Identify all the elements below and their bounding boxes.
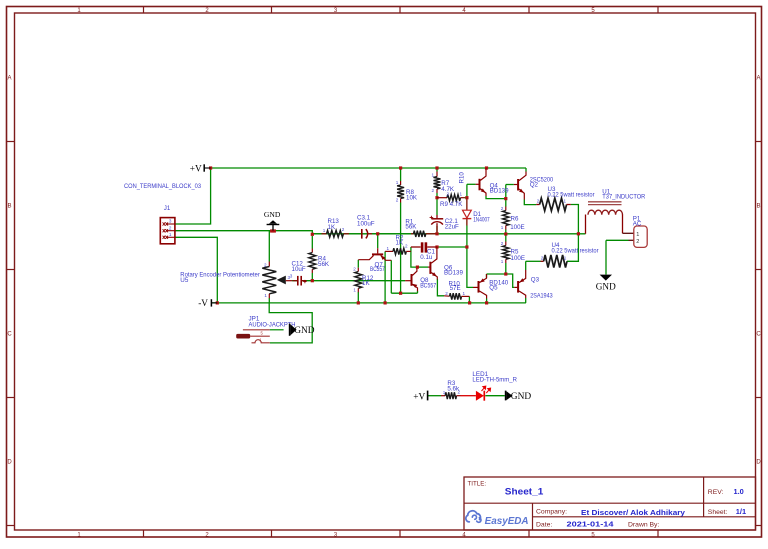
svg-text:B: B (756, 204, 760, 210)
wire Q7 collector to R12 (357, 260, 359, 268)
svg-text:GND: GND (596, 281, 616, 291)
svg-text:2: 2 (541, 256, 544, 261)
wire rail to Q7 base (377, 234, 379, 248)
svg-text:22uF: 22uF (445, 223, 459, 230)
wire D1 to Q5 base (467, 220, 473, 288)
svg-text:C: C (756, 332, 761, 338)
svg-text:CON_TERMINAL_BLOCK_03: CON_TERMINAL_BLOCK_03 (124, 183, 202, 190)
resistor R2 (385, 248, 411, 254)
resistor R3 (441, 392, 461, 399)
svg-text:100E: 100E (510, 224, 524, 231)
wire R7 to R9 node (436, 193, 438, 198)
resistor R13 (322, 230, 350, 237)
svg-text:1: 1 (323, 228, 326, 233)
svg-text:2: 2 (342, 227, 345, 232)
connector J1 (160, 218, 175, 244)
svg-text:GND: GND (294, 326, 315, 336)
resistor R5 (503, 242, 509, 264)
wire emitter bus (391, 292, 417, 294)
svg-text:1: 1 (564, 256, 567, 261)
diode D1 (463, 198, 472, 226)
junction (270, 229, 273, 232)
svg-text:BC557: BC557 (370, 266, 385, 273)
svg-text:1K: 1K (396, 240, 404, 247)
wire Q8 emitter down (417, 291, 419, 293)
svg-text:2: 2 (264, 262, 267, 267)
svg-text:1/1: 1/1 (736, 507, 746, 516)
junction (216, 301, 219, 304)
svg-text:T37_INDUCTOR: T37_INDUCTOR (602, 194, 645, 201)
svg-text:0.22 5watt resistor: 0.22 5watt resistor (552, 247, 599, 254)
svg-text:0.1u: 0.1u (420, 254, 433, 261)
wire node to R6 (505, 199, 507, 207)
wire C2.1 to rail (436, 226, 438, 234)
svg-text:Date:: Date: (536, 522, 552, 529)
wire R9 right (465, 197, 467, 199)
capacitor C12 (293, 276, 307, 286)
wire R4 to wiper line (311, 273, 313, 281)
svg-text:Sheet_1: Sheet_1 (505, 487, 544, 497)
svg-text:1: 1 (264, 293, 267, 298)
svg-text:2: 2 (458, 389, 461, 394)
wire C12 to Q8 base (301, 280, 405, 282)
svg-text:2: 2 (447, 192, 450, 197)
wire rail to Q2 collector (525, 168, 527, 172)
wire P1 pin2 (606, 239, 629, 241)
junction (465, 196, 468, 199)
svg-text:EasyEDA: EasyEDA (485, 516, 529, 527)
ground GND (output) (596, 275, 616, 292)
svg-text:2: 2 (396, 198, 399, 203)
resistor R12 (355, 268, 362, 293)
wire C1 left to Q8 collector node (411, 247, 418, 267)
svg-text:1: 1 (460, 192, 463, 197)
svg-text:10K: 10K (406, 195, 418, 202)
junction (384, 301, 387, 304)
wire down to D1 (466, 184, 468, 209)
title block (464, 477, 756, 530)
svg-text:GND: GND (264, 210, 281, 219)
ground GND (LED) (506, 391, 532, 403)
svg-text:1N4007: 1N4007 (473, 217, 490, 224)
svg-text:GND: GND (511, 392, 532, 402)
wire to U4 left (526, 260, 541, 262)
capacitor C3.1 (362, 229, 372, 239)
junction (435, 232, 438, 235)
svg-text:2: 2 (636, 239, 639, 245)
wire Q3 emitter up (525, 261, 527, 270)
wire rail to R4 (311, 236, 313, 249)
svg-text:3: 3 (169, 219, 172, 224)
wire LED to GND flag (485, 395, 505, 397)
wire R6 to rail (505, 230, 507, 235)
resistor R1 (411, 231, 436, 237)
wire to R13 (312, 233, 321, 235)
junction (485, 301, 488, 304)
wire R12 to bottom rail (357, 292, 359, 303)
junction (435, 166, 438, 169)
svg-text:LED-TH-5mm_R: LED-TH-5mm_R (472, 377, 517, 384)
potentiometer U5 (rotary encoder) (262, 262, 292, 299)
svg-text:R6: R6 (511, 216, 519, 223)
wire J1 pin1 down (175, 237, 217, 303)
svg-text:3: 3 (290, 274, 293, 279)
wire +V top rail (211, 167, 526, 169)
svg-text:1K: 1K (328, 224, 336, 231)
svg-text:R10: R10 (459, 172, 466, 184)
svg-text:B: B (7, 204, 11, 210)
junction (577, 232, 580, 235)
svg-text:Drawn By:: Drawn By: (628, 522, 659, 529)
wire -V bottom rail (211, 302, 526, 304)
svg-text:R9 4.7K: R9 4.7K (440, 201, 463, 208)
junction (399, 166, 402, 169)
transistor Q2 (514, 172, 526, 200)
wire Q4 emitter to node (486, 196, 506, 199)
wire JP1 loop (269, 303, 312, 343)
wire C3.1 to R1 (372, 233, 411, 235)
svg-text:1: 1 (501, 225, 504, 230)
svg-text:2: 2 (445, 291, 448, 296)
svg-text:AC: AC (633, 221, 642, 228)
svg-text:Q3: Q3 (531, 277, 540, 284)
power flag +V (190, 164, 211, 174)
resistor R4 (309, 249, 316, 274)
svg-text:-V: -V (198, 299, 208, 309)
wire GND to potentiometer top (268, 231, 270, 262)
svg-text:1K: 1K (362, 280, 370, 287)
svg-text:REV:: REV: (708, 489, 724, 496)
junction (399, 292, 402, 295)
connector P1 (623, 226, 648, 247)
svg-text:2: 2 (353, 267, 356, 272)
svg-text:100uF: 100uF (357, 220, 375, 227)
wire Q7 emitter down (390, 260, 392, 293)
wire to Q4 base (467, 183, 476, 185)
svg-text:57E: 57E (450, 285, 461, 292)
svg-text:10uF: 10uF (292, 266, 306, 273)
wire node to Q3 base (506, 274, 514, 287)
svg-text:1.0: 1.0 (734, 487, 744, 496)
svg-text:1: 1 (463, 291, 466, 296)
svg-text:1: 1 (443, 390, 446, 395)
wire potentiometer bottom (268, 298, 270, 303)
svg-text:AUDIO-JACKPTH: AUDIO-JACKPTH (249, 322, 296, 329)
wire to Q2 base (506, 184, 514, 186)
svg-text:1: 1 (564, 199, 567, 204)
transistor Q6 (428, 247, 437, 280)
svg-text:0.22 5watt resistor: 0.22 5watt resistor (548, 191, 595, 198)
svg-text:C: C (7, 332, 12, 338)
wire R13 to C3.1 (349, 233, 362, 235)
junction (435, 196, 438, 199)
wire rail to R5 (505, 234, 507, 242)
wire J1 pin2 to GND rail (175, 231, 312, 234)
wire P1 pin2 to GND (605, 240, 607, 274)
resistor R9 (437, 195, 465, 201)
wire node to C2.1 (436, 198, 438, 215)
wire +V to R3 (428, 395, 441, 397)
svg-text:D: D (7, 460, 12, 466)
inductor U1 (586, 202, 623, 234)
power flag -V (198, 299, 217, 309)
svg-text:BC557: BC557 (420, 283, 436, 290)
svg-text:2: 2 (405, 244, 408, 249)
junction (311, 279, 314, 282)
junction (416, 266, 419, 269)
svg-text:56K: 56K (318, 261, 330, 268)
svg-text:56K: 56K (405, 224, 417, 231)
svg-text:Sheet:: Sheet: (708, 509, 728, 516)
svg-text:2: 2 (501, 241, 504, 246)
EasyEDA logo (466, 511, 529, 527)
wire Q5 emitter drop (486, 274, 488, 278)
svg-text:1: 1 (432, 173, 435, 178)
wire R8 down (400, 203, 402, 294)
svg-text:2: 2 (432, 188, 435, 193)
resistor R7 (434, 172, 441, 194)
junction (468, 301, 471, 304)
svg-text:TITLE:: TITLE: (468, 480, 487, 487)
junction (504, 272, 507, 275)
svg-text:1: 1 (636, 232, 639, 238)
wire C1 right to D1 line (437, 246, 467, 248)
resistor R10 (444, 293, 469, 299)
junction (357, 301, 360, 304)
junction (376, 232, 379, 235)
junction (311, 233, 314, 236)
svg-text:J1: J1 (164, 205, 171, 212)
wire node up (505, 185, 507, 199)
svg-text:1: 1 (501, 259, 504, 264)
power flag +V (LED) (413, 391, 427, 403)
wire node to Q6 base (417, 266, 428, 268)
junction (504, 197, 507, 200)
svg-text:BD139: BD139 (444, 270, 463, 277)
wire node to Q5 emitter (487, 273, 506, 275)
resistor U4 (541, 255, 568, 268)
svg-text:1: 1 (169, 232, 172, 237)
svg-text:2021-01-14: 2021-01-14 (567, 520, 615, 529)
wire +V to J1 pin3 (175, 168, 211, 224)
transistor Q5 (473, 274, 487, 299)
svg-text:100E: 100E (511, 255, 525, 262)
junction (504, 232, 507, 235)
svg-text:D: D (756, 460, 761, 466)
svg-text:Q2: Q2 (530, 182, 539, 189)
wire R5 down (505, 263, 507, 274)
svg-text:2: 2 (537, 199, 540, 204)
wire wiper to C12 (292, 280, 298, 282)
wire U3 right down to U4 right (567, 205, 578, 262)
svg-text:2: 2 (501, 206, 504, 211)
LED LED1 (461, 386, 491, 401)
wire Q6 emitter to R10 (437, 279, 444, 296)
ground GND (input) (264, 210, 281, 230)
wire signal rail (312, 233, 585, 235)
capacitor C2.1 (430, 215, 444, 232)
transistor Q3 (514, 270, 526, 298)
svg-text:+V: +V (190, 164, 202, 174)
svg-text:2: 2 (169, 225, 172, 230)
svg-text:1: 1 (387, 246, 390, 251)
wire Q2 emitter to U3 (524, 200, 536, 205)
svg-text:2SA1943: 2SA1943 (530, 293, 553, 300)
transistor Q8 (405, 268, 417, 291)
svg-text:A: A (7, 76, 11, 82)
wire R2 left down to rail (384, 251, 386, 303)
transistor Q4 (476, 168, 486, 196)
junction (485, 166, 488, 169)
wire Q3 collector to rail (525, 298, 527, 303)
wire R10 right to rail (468, 296, 470, 303)
svg-text:BD139: BD139 (490, 187, 509, 194)
junction (209, 166, 212, 169)
wire rail to R8 (400, 168, 402, 181)
svg-text:Company:: Company: (536, 508, 567, 515)
resistor U3 (536, 198, 571, 211)
svg-text:+V: +V (413, 392, 425, 402)
svg-text:Q5: Q5 (489, 285, 498, 292)
junction (435, 245, 438, 248)
svg-text:A: A (756, 76, 760, 82)
junction (273, 229, 276, 232)
wire Q5 collector to rail (486, 299, 488, 303)
svg-text:Rotary Encoder Potentiometer: Rotary Encoder Potentiometer (180, 271, 259, 278)
svg-text:Et Discover/ Alok Adhikary: Et Discover/ Alok Adhikary (581, 510, 685, 517)
wire rail to R7 (436, 168, 438, 172)
audio jack JP1 (236, 330, 283, 343)
ground GND (audio jack) (290, 324, 315, 336)
transistor Q7 (358, 248, 391, 260)
svg-text:U5: U5 (180, 277, 189, 284)
junction (465, 245, 468, 248)
svg-text:1: 1 (396, 180, 399, 185)
svg-text:1: 1 (353, 288, 356, 293)
resistor R6 (503, 207, 509, 230)
capacitor C1 (411, 242, 437, 252)
resistor R8 (397, 181, 404, 203)
